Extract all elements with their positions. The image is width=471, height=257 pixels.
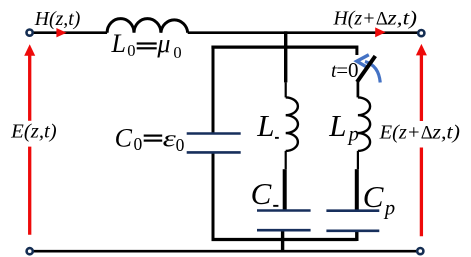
svg-text:L: L bbox=[328, 108, 346, 143]
svg-text:L: L bbox=[256, 108, 274, 143]
svg-text:H(z+: H(z+ bbox=[333, 8, 376, 30]
svg-text:=0: =0 bbox=[336, 58, 358, 82]
svg-text:Δ: Δ bbox=[421, 123, 433, 143]
svg-text:0: 0 bbox=[134, 134, 143, 154]
svg-text:E(z,t): E(z,t) bbox=[10, 121, 57, 143]
svg-text:C: C bbox=[251, 176, 272, 211]
svg-text:E(z+: E(z+ bbox=[379, 121, 421, 143]
svg-text:C: C bbox=[363, 179, 384, 214]
svg-text:Δ: Δ bbox=[376, 10, 388, 30]
svg-text:z,t): z,t) bbox=[386, 8, 417, 30]
svg-text:z,t): z,t) bbox=[431, 121, 460, 143]
svg-text:0: 0 bbox=[176, 135, 185, 155]
svg-text:p: p bbox=[383, 198, 395, 220]
svg-text:0: 0 bbox=[127, 41, 135, 60]
svg-text:ε: ε bbox=[163, 127, 177, 153]
svg-text:p: p bbox=[347, 123, 359, 145]
svg-text:L: L bbox=[111, 29, 126, 58]
svg-text:H(z,t): H(z,t) bbox=[34, 8, 81, 30]
svg-text:C: C bbox=[115, 124, 133, 153]
svg-text:μ: μ bbox=[156, 29, 170, 58]
svg-text:0: 0 bbox=[173, 43, 181, 62]
